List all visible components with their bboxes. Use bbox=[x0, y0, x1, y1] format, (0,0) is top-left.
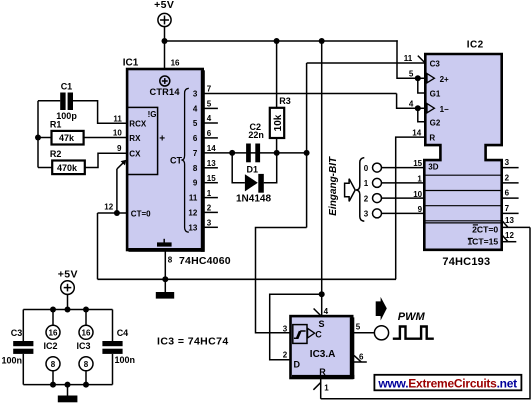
svg-text:13: 13 bbox=[188, 223, 197, 232]
diode D1 1N4148 bbox=[232, 153, 277, 183]
resistor R2 470k bbox=[52, 161, 85, 175]
IC3.A pin5 Q output wire bbox=[352, 332, 374, 334]
svg-text:R2: R2 bbox=[50, 149, 62, 159]
svg-text:D1: D1 bbox=[247, 164, 259, 174]
svg-text:12: 12 bbox=[188, 208, 197, 217]
svg-text:IC2: IC2 bbox=[467, 40, 484, 51]
svg-text:RCX: RCX bbox=[129, 120, 147, 129]
wire ground rail bbox=[98, 278, 397, 280]
IC2 power pin 8 bbox=[46, 357, 60, 371]
svg-text:16: 16 bbox=[49, 329, 58, 338]
svg-text:8: 8 bbox=[193, 164, 198, 173]
wire +5V rail bbox=[165, 40, 398, 42]
PWM output terminal bbox=[374, 326, 388, 340]
svg-text:470k: 470k bbox=[57, 163, 78, 173]
IC3.A clock dynamic triangle bbox=[308, 328, 315, 338]
svg-text:9: 9 bbox=[418, 205, 423, 214]
svg-text:4: 4 bbox=[324, 307, 329, 316]
capacitor C1 bbox=[60, 93, 73, 111]
svg-text:IC2: IC2 bbox=[44, 341, 58, 351]
IC1 right pin rows bbox=[203, 94, 397, 228]
svg-text:3: 3 bbox=[364, 210, 369, 219]
svg-text:4: 4 bbox=[207, 114, 212, 123]
node C2 net junctions bbox=[229, 150, 309, 156]
svg-text:13: 13 bbox=[207, 159, 216, 168]
wire decoupling bottom rail bbox=[23, 384, 112, 386]
svg-text:IC3.A: IC3.A bbox=[310, 349, 336, 360]
resistor R3 10k bbox=[276, 41, 278, 108]
IC2 pin11 C3 bbox=[418, 56, 425, 63]
wire +5V to flipflop S/D bbox=[321, 41, 323, 294]
wire IC1 pin7 to IC2 pin4 bbox=[397, 94, 426, 109]
PWM arrow bbox=[376, 297, 387, 321]
svg-text:7: 7 bbox=[207, 85, 212, 94]
IC2 pin4 1- bbox=[418, 108, 426, 122]
wire rail to IC2 pin5 bbox=[397, 41, 425, 78]
svg-text:1N4148: 1N4148 bbox=[236, 194, 271, 205]
svg-text:6: 6 bbox=[505, 189, 510, 198]
svg-text:10k: 10k bbox=[273, 114, 284, 131]
Eingang-BIT input terminals bbox=[373, 163, 382, 218]
IC1 internal ground bar bbox=[157, 239, 172, 247]
svg-text:16: 16 bbox=[171, 58, 180, 67]
wire pin13 to flipflop reset bbox=[321, 227, 530, 398]
wire R2 to CX pin9 bbox=[85, 153, 127, 167]
svg-text:8: 8 bbox=[84, 360, 89, 369]
svg-text:5: 5 bbox=[409, 70, 414, 79]
wire S/D tie bbox=[270, 294, 322, 360]
IC3.A pin1 R bottom bbox=[320, 378, 322, 399]
svg-text:CX: CX bbox=[129, 150, 141, 159]
svg-text:8: 8 bbox=[51, 360, 56, 369]
svg-text:3: 3 bbox=[505, 158, 510, 167]
IC3.A pin4 S top tick bbox=[314, 309, 321, 316]
svg-text:2: 2 bbox=[283, 351, 288, 360]
svg-text:G2: G2 bbox=[430, 119, 441, 128]
svg-text:100n: 100n bbox=[115, 355, 136, 365]
svg-text:5: 5 bbox=[207, 100, 212, 109]
svg-text:7: 7 bbox=[193, 149, 198, 158]
svg-text:11: 11 bbox=[113, 114, 122, 123]
svg-text:C3: C3 bbox=[11, 328, 23, 338]
IC3.A Schmitt hysteresis box bbox=[293, 325, 307, 344]
svg-text:1: 1 bbox=[364, 179, 369, 188]
op IC1 74HC4060 counter body bbox=[127, 69, 205, 252]
svg-text:IC3 = 74HC74: IC3 = 74HC74 bbox=[157, 336, 229, 348]
svg-text:1−: 1− bbox=[440, 105, 449, 114]
svg-text:!G: !G bbox=[148, 110, 157, 119]
svg-text:9: 9 bbox=[117, 144, 122, 153]
svg-text:C3: C3 bbox=[430, 60, 441, 69]
svg-text:3: 3 bbox=[283, 325, 288, 334]
op IC2 74HC193 counter body bbox=[424, 54, 501, 250]
svg-text:G1: G1 bbox=[430, 89, 441, 98]
svg-text:3D: 3D bbox=[428, 162, 438, 171]
wire Eingang-BIT input rows bbox=[382, 168, 425, 214]
wire IC1 pin16 bbox=[164, 41, 166, 69]
svg-text:2CT=0: 2CT=0 bbox=[472, 224, 498, 234]
svg-text:11: 11 bbox=[189, 194, 198, 203]
svg-text:12: 12 bbox=[104, 203, 113, 212]
svg-text:5: 5 bbox=[193, 119, 198, 128]
wire IC1 pin12 CT=0 reset bbox=[98, 162, 128, 279]
svg-text:+5V: +5V bbox=[154, 0, 174, 11]
wire R1 to RX pin10 bbox=[84, 137, 128, 139]
svg-text:2+: 2+ bbox=[440, 75, 449, 84]
node +5V rail junctions bbox=[162, 38, 325, 44]
svg-text:4: 4 bbox=[409, 100, 414, 109]
IC1 external pin numbers right bbox=[207, 85, 216, 228]
svg-text:R1: R1 bbox=[50, 120, 62, 130]
svg-text:3: 3 bbox=[207, 219, 212, 228]
svg-text:3: 3 bbox=[193, 90, 198, 99]
svg-text:1: 1 bbox=[207, 189, 212, 198]
svg-text:13: 13 bbox=[505, 216, 514, 225]
svg-text:S: S bbox=[319, 319, 325, 329]
svg-text:5: 5 bbox=[356, 323, 361, 332]
svg-text:1: 1 bbox=[417, 175, 422, 184]
wire IC1 pin8 to ground rail bbox=[164, 250, 166, 279]
capacitor C3 100n bbox=[22, 310, 24, 342]
svg-text:14: 14 bbox=[412, 128, 421, 137]
svg-text:C1: C1 bbox=[61, 82, 73, 92]
wire C1 to RCX pin11 bbox=[73, 101, 127, 124]
IC2 power pin 16 bbox=[52, 310, 54, 326]
wire IC2 pin14 R to ground rail bbox=[396, 137, 426, 279]
svg-text:1: 1 bbox=[324, 383, 329, 392]
node R1 left junction bbox=[35, 135, 41, 141]
svg-text:RX: RX bbox=[129, 134, 141, 143]
svg-text:2: 2 bbox=[364, 194, 369, 203]
svg-text:R: R bbox=[429, 134, 435, 143]
svg-text:10: 10 bbox=[413, 190, 422, 199]
IC1 left pin wires bbox=[38, 101, 127, 168]
wire left bus bbox=[38, 100, 60, 102]
svg-text:CTR14: CTR14 bbox=[150, 87, 181, 97]
svg-text:C: C bbox=[315, 329, 322, 339]
IC1 internal output labels 3..13 bbox=[188, 90, 197, 233]
svg-text:2: 2 bbox=[207, 204, 212, 213]
svg-text:IC1: IC1 bbox=[123, 57, 139, 68]
IC1 internal plus-circle bbox=[160, 76, 170, 86]
svg-text:10: 10 bbox=[113, 129, 122, 138]
svg-text:15: 15 bbox=[207, 174, 216, 183]
svg-text:R3: R3 bbox=[279, 96, 291, 106]
svg-text:4: 4 bbox=[193, 104, 198, 113]
svg-text:6: 6 bbox=[193, 134, 198, 143]
capacitor C4 100n bbox=[112, 310, 114, 342]
IC1 inner oscillator box bbox=[127, 107, 158, 174]
svg-text:Eingang-BIT: Eingang-BIT bbox=[328, 156, 339, 216]
IC2 output stubs right bbox=[502, 168, 519, 214]
input group brace bbox=[356, 158, 364, 222]
svg-text:+: + bbox=[159, 134, 165, 145]
svg-text:2: 2 bbox=[505, 173, 510, 182]
svg-text:IC3: IC3 bbox=[77, 341, 91, 351]
svg-text:47k: 47k bbox=[59, 133, 75, 143]
wire decoupling top rail bbox=[23, 309, 112, 311]
svg-text:6: 6 bbox=[207, 129, 212, 138]
Eingang-BIT arrow bbox=[345, 179, 356, 202]
svg-text:11: 11 bbox=[404, 54, 413, 63]
svg-text:C4: C4 bbox=[117, 328, 129, 338]
+5V supply symbol top bbox=[158, 13, 171, 41]
banner www.ExtremeCircuits.net bbox=[374, 375, 521, 391]
wire IC2 pin11 C3 clock net bbox=[256, 63, 426, 333]
svg-text:22n: 22n bbox=[248, 130, 264, 140]
svg-text:16: 16 bbox=[82, 329, 91, 338]
svg-text:D: D bbox=[294, 359, 301, 369]
svg-text:0: 0 bbox=[364, 164, 369, 173]
capacitor C2 22n bbox=[246, 144, 260, 163]
IC3.A pin6 stub bbox=[353, 361, 366, 363]
svg-text:7: 7 bbox=[505, 204, 510, 213]
node pin12 junction bbox=[114, 210, 120, 216]
svg-text:CT=0: CT=0 bbox=[131, 209, 151, 218]
PWM waveform bbox=[393, 327, 434, 339]
svg-text:8: 8 bbox=[168, 256, 173, 265]
svg-text:PWM: PWM bbox=[398, 311, 426, 323]
svg-text:www.ExtremeCircuits.net: www.ExtremeCircuits.net bbox=[377, 377, 517, 391]
svg-text:+5V: +5V bbox=[58, 268, 78, 280]
op IC3.A 74HC74 flip-flop body bbox=[291, 316, 353, 378]
svg-text:74HC193: 74HC193 bbox=[442, 256, 490, 268]
svg-text:9: 9 bbox=[193, 179, 198, 188]
svg-text:14: 14 bbox=[207, 144, 216, 153]
svg-text:CT: CT bbox=[170, 156, 182, 166]
resistor R1 47k bbox=[52, 131, 84, 145]
IC3 power pin 8 bbox=[79, 357, 93, 371]
svg-text:15: 15 bbox=[413, 159, 422, 168]
svg-text:12: 12 bbox=[505, 231, 514, 240]
IC2 pin5 2+ bbox=[418, 78, 426, 93]
ground symbol lower left bbox=[67, 385, 69, 396]
svg-text:100n: 100n bbox=[2, 356, 23, 366]
IC3 power pin 16 bbox=[85, 310, 87, 326]
IC2 lower register section rows bbox=[425, 175, 502, 223]
svg-text:6: 6 bbox=[359, 352, 364, 361]
svg-text:R: R bbox=[319, 367, 326, 377]
ground symbol under IC1 bbox=[156, 279, 174, 298]
svg-text:74HC4060: 74HC4060 bbox=[179, 255, 231, 267]
